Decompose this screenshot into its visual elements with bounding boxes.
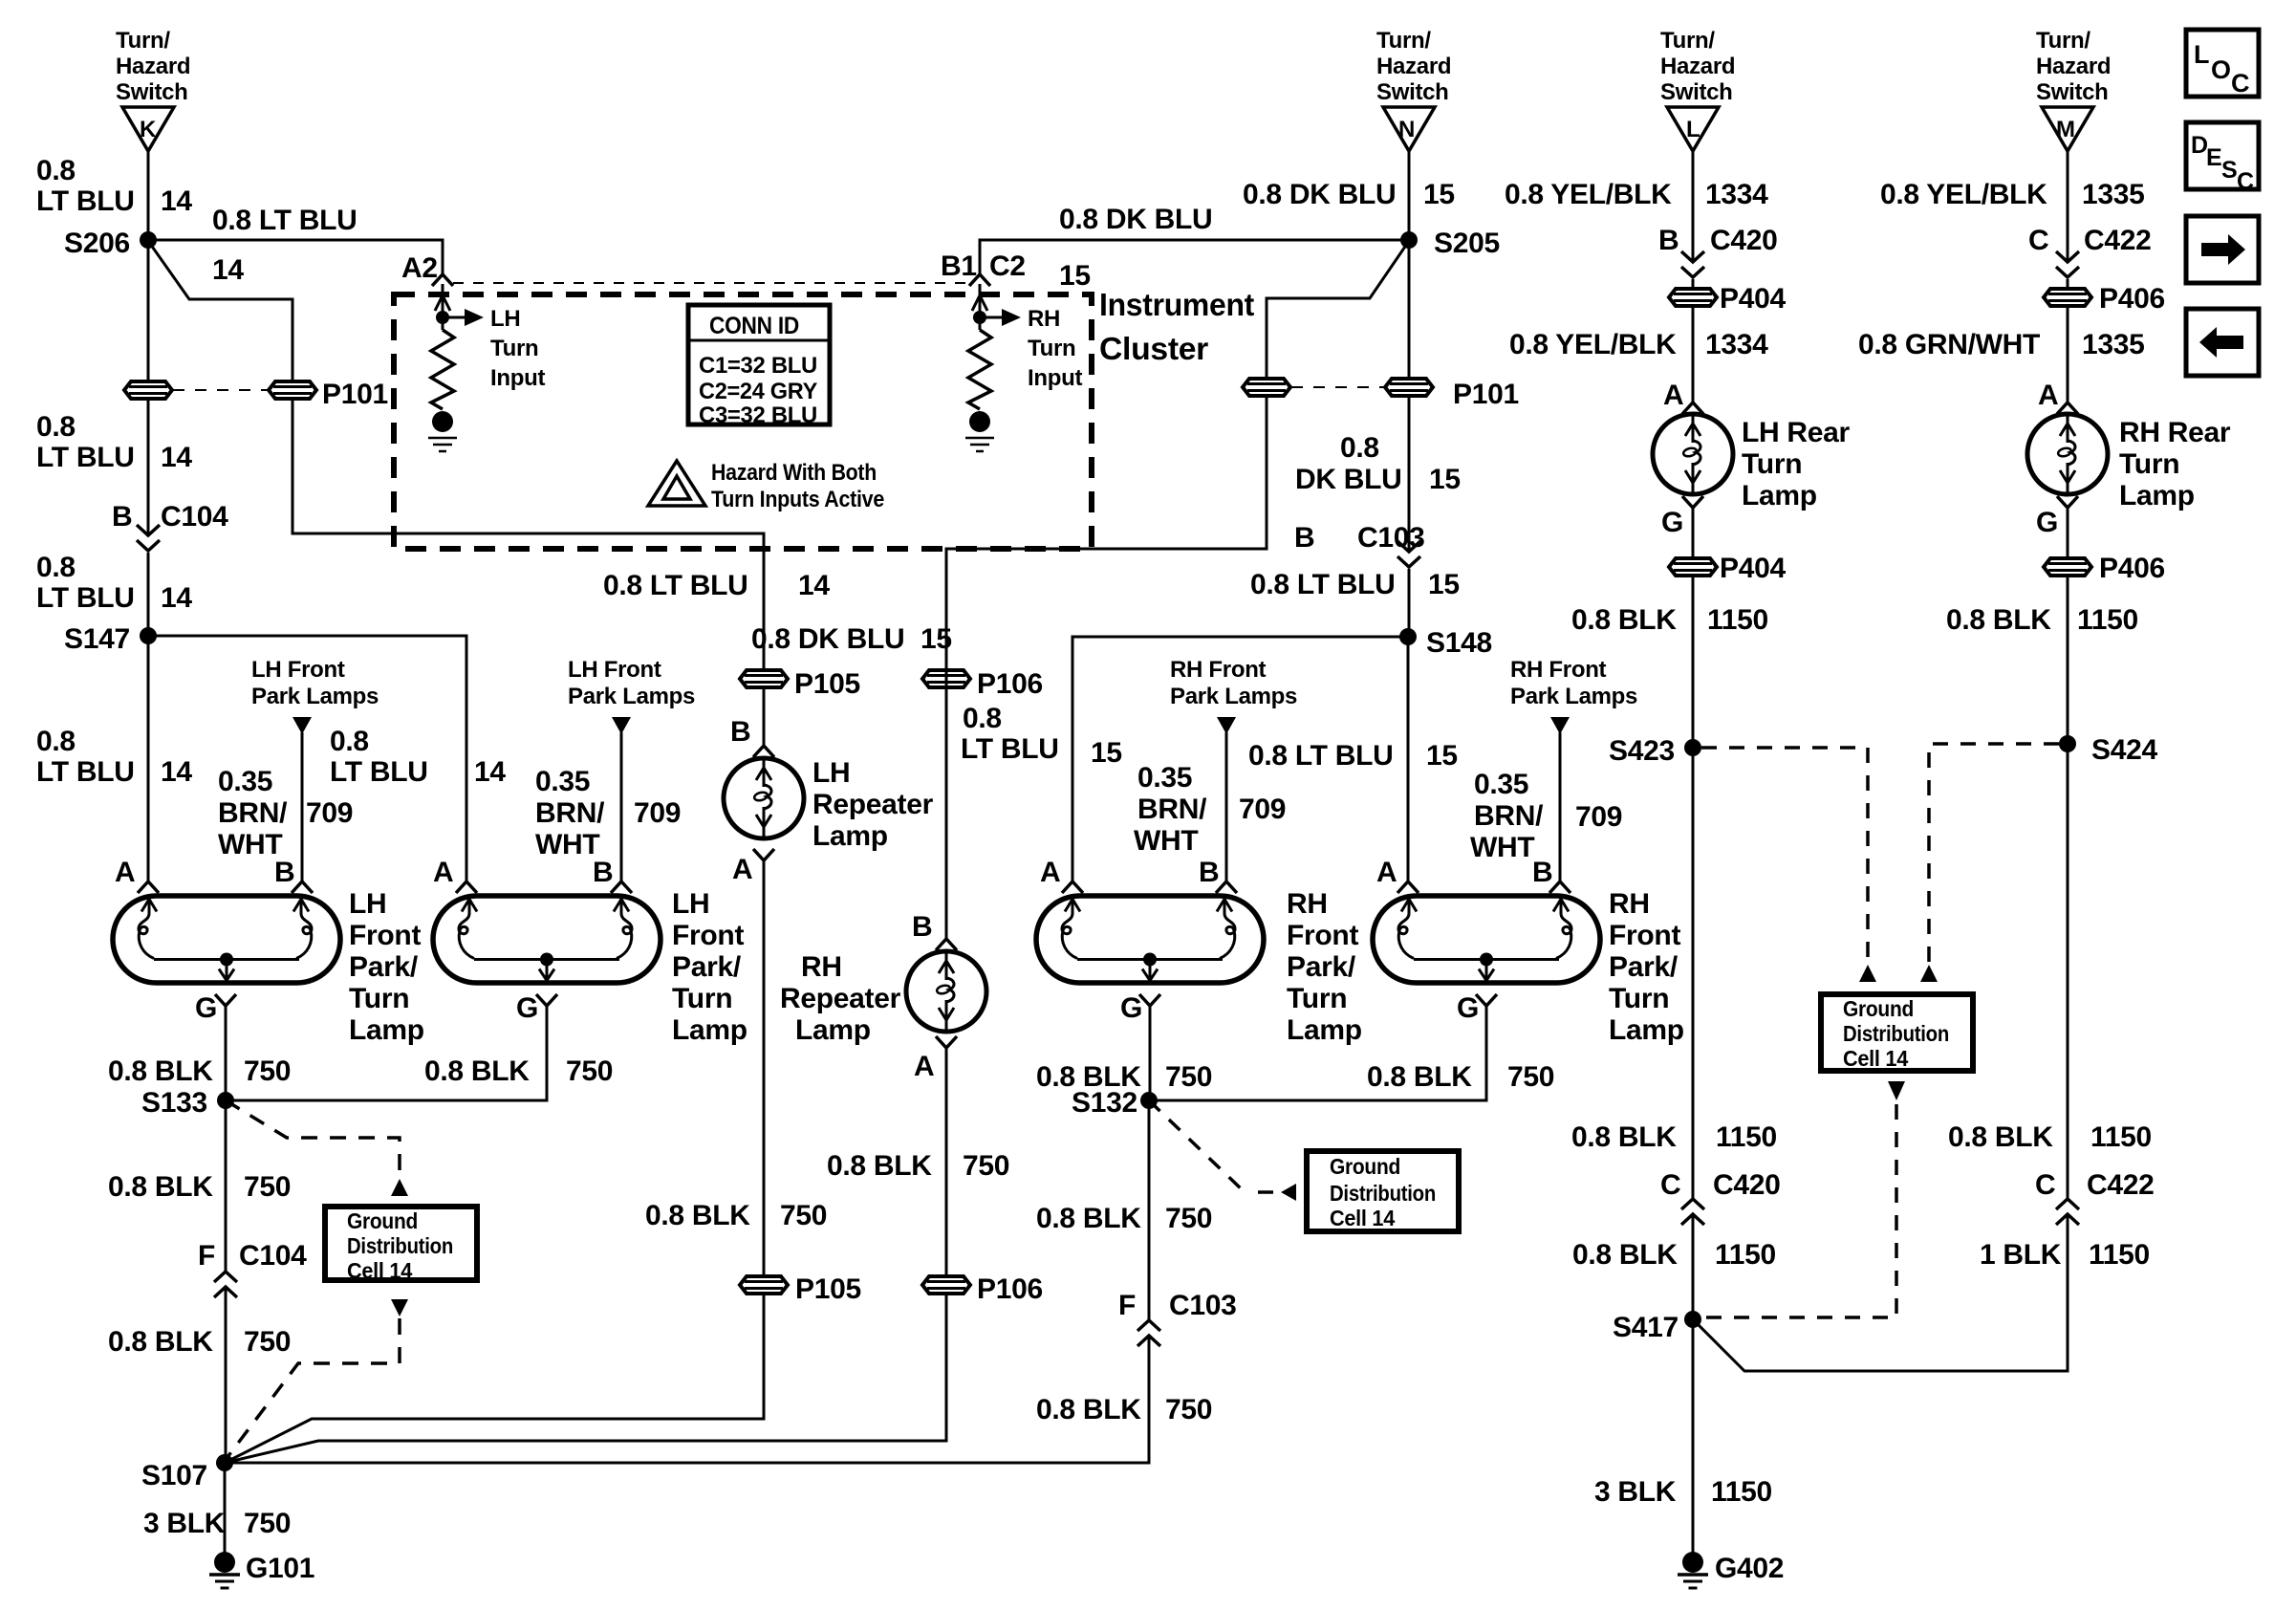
svg-text:0.8 BLK: 0.8 BLK — [1948, 1121, 2053, 1153]
svg-text:LH: LH — [349, 888, 386, 920]
svg-text:LT BLU: LT BLU — [330, 756, 428, 788]
svg-text:G: G — [195, 992, 217, 1024]
svg-text:750: 750 — [244, 1055, 291, 1087]
svg-text:WHT: WHT — [1470, 832, 1534, 863]
svg-text:15: 15 — [1429, 464, 1461, 495]
svg-text:P406: P406 — [2099, 553, 2165, 584]
pin B LH front park/turn lamp 1 — [292, 881, 313, 893]
svg-text:0.8 DK BLU: 0.8 DK BLU — [1059, 204, 1212, 235]
svg-text:0.8 BLK: 0.8 BLK — [108, 1326, 213, 1358]
lamp LH front park/turn 1 — [113, 896, 340, 983]
svg-text:Switch: Switch — [116, 79, 188, 105]
svg-text:0.8: 0.8 — [36, 552, 76, 583]
wire S206 to C104 pin B — [147, 240, 150, 535]
svg-text:750: 750 — [1165, 1203, 1212, 1234]
svg-text:Cell 14: Cell 14 — [1330, 1206, 1395, 1230]
svg-text:Front: Front — [349, 920, 421, 951]
wire park lamps feed to lamp 3 pin B — [1225, 732, 1228, 881]
arrow S423 ref into box — [1859, 965, 1876, 982]
svg-text:14: 14 — [474, 756, 506, 788]
svg-text:0.8: 0.8 — [36, 726, 76, 757]
conn id table divider — [688, 339, 830, 342]
svg-text:WHT: WHT — [1134, 825, 1198, 857]
svg-text:1334: 1334 — [1705, 179, 1768, 210]
wire C104 F to S107 — [225, 1287, 227, 1463]
pin B RH front park/turn lamp 4 — [1549, 881, 1570, 893]
svg-text:1150: 1150 — [1716, 1121, 1777, 1153]
svg-text:709: 709 — [1239, 794, 1286, 825]
svg-text:Turn Inputs Active: Turn Inputs Active — [711, 487, 884, 512]
svg-text:Lamp: Lamp — [1287, 1014, 1362, 1046]
svg-text:K: K — [140, 117, 157, 142]
svg-text:CONN ID: CONN ID — [709, 313, 799, 339]
svg-text:C422: C422 — [2084, 225, 2152, 256]
pin B LH front park/turn lamp 2 — [611, 881, 632, 893]
pin G LH front park/turn lamp 2 — [536, 994, 557, 1006]
ground RH turn input — [965, 438, 994, 451]
turn/hazard switch K — [122, 107, 174, 151]
dashed link pin A2 to pin B1 — [453, 282, 969, 284]
pin A LH front park/turn lamp 1 — [138, 881, 159, 893]
svg-text:Front: Front — [1287, 920, 1358, 951]
wire K switch to S206 — [147, 151, 150, 240]
dashed ref S424 to ground distribution — [1929, 744, 2059, 962]
svg-text:G: G — [516, 992, 538, 1024]
svg-text:B: B — [1532, 857, 1552, 888]
wire park lamps feed to lamp 4 pin B — [1559, 732, 1562, 881]
arrow LH turn input — [465, 309, 484, 326]
grommet P101 left on branch wire — [269, 381, 316, 399]
svg-text:Park/: Park/ — [1287, 951, 1356, 983]
svg-text:0.35: 0.35 — [1474, 769, 1528, 800]
svg-text:Turn: Turn — [1609, 983, 1669, 1014]
dashed link P101 left pair — [173, 389, 269, 391]
svg-text:0.8 LT BLU: 0.8 LT BLU — [1250, 569, 1395, 600]
svg-text:Park Lamps: Park Lamps — [251, 684, 379, 709]
svg-text:BRN/: BRN/ — [218, 797, 288, 829]
turn/hazard switch L — [1667, 107, 1719, 151]
svg-text:3 BLK: 3 BLK — [1594, 1476, 1677, 1508]
svg-text:LT BLU: LT BLU — [36, 442, 135, 473]
wire RH rear lamp G to C422 pin C — [2067, 508, 2069, 1199]
instrument cluster dashed box — [394, 294, 1092, 549]
svg-text:M: M — [2056, 117, 2075, 142]
svg-text:Park Lamps: Park Lamps — [1510, 684, 1637, 709]
svg-text:Park/: Park/ — [1609, 951, 1679, 983]
wire C422 C to RH rear lamp pin A — [2067, 279, 2069, 402]
wire C103 B to S148 — [1408, 569, 1411, 637]
grommet P101 right on N wire — [1385, 379, 1433, 396]
svg-text:A: A — [1040, 857, 1060, 888]
svg-text:A2: A2 — [401, 252, 438, 284]
svg-text:14: 14 — [161, 756, 192, 788]
svg-text:C420: C420 — [1713, 1169, 1781, 1201]
svg-text:G402: G402 — [1715, 1553, 1784, 1584]
svg-text:Lamp: Lamp — [349, 1014, 424, 1046]
wire S205 to instrument cluster pin B1 — [980, 240, 1409, 274]
svg-text:Lamp: Lamp — [795, 1014, 871, 1046]
grommet P406 upper — [2044, 289, 2091, 306]
svg-text:Turn/: Turn/ — [116, 28, 170, 54]
svg-text:S147: S147 — [64, 623, 130, 655]
svg-text:0.8 BLK: 0.8 BLK — [1571, 1121, 1677, 1153]
svg-text:P404: P404 — [1720, 553, 1786, 584]
svg-text:Cell 14: Cell 14 — [347, 1258, 412, 1283]
svg-text:750: 750 — [244, 1508, 291, 1539]
svg-text:Cell 14: Cell 14 — [1843, 1046, 1908, 1071]
svg-text:P101: P101 — [322, 379, 388, 410]
svg-text:Hazard With Both: Hazard With Both — [711, 460, 877, 486]
grommet P101 left on K wire — [124, 381, 172, 399]
grommet P406 lower — [2044, 558, 2091, 576]
lamp RH repeater — [906, 951, 986, 1032]
svg-text:750: 750 — [963, 1150, 1009, 1182]
ground G101 — [209, 1552, 240, 1588]
svg-text:0.8 BLK: 0.8 BLK — [108, 1171, 213, 1203]
svg-text:S: S — [2221, 157, 2237, 184]
svg-text:0.8: 0.8 — [1340, 432, 1379, 464]
svg-text:0.35: 0.35 — [1137, 762, 1192, 794]
svg-text:DK BLU: DK BLU — [1295, 464, 1402, 495]
pin B RH front park/turn lamp 3 — [1216, 881, 1237, 893]
svg-text:0.8 BLK: 0.8 BLK — [1571, 604, 1677, 636]
svg-text:0.8 BLK: 0.8 BLK — [1036, 1394, 1141, 1425]
splice S107 — [216, 1454, 233, 1471]
lamp LH rear turn — [1653, 414, 1733, 494]
svg-text:S423: S423 — [1609, 735, 1675, 767]
svg-text:LH Rear: LH Rear — [1742, 417, 1851, 448]
arrow out of ground distribution box left — [391, 1299, 408, 1316]
svg-text:Lamp: Lamp — [2119, 480, 2195, 511]
legend box DESC — [2186, 122, 2259, 189]
svg-text:709: 709 — [306, 797, 353, 829]
svg-text:P101: P101 — [1453, 379, 1519, 410]
arrow out of ground distribution box right — [1888, 1081, 1905, 1100]
svg-text:S205: S205 — [1434, 228, 1500, 259]
svg-text:C1=32 BLU: C1=32 BLU — [699, 353, 817, 379]
resistor RH turn input — [968, 330, 991, 409]
svg-text:1150: 1150 — [2090, 1121, 2152, 1153]
svg-text:S424: S424 — [2091, 734, 2157, 766]
svg-text:A: A — [2038, 380, 2058, 411]
svg-text:14: 14 — [161, 442, 192, 473]
wire RH repeater A to S107 — [225, 1048, 946, 1463]
svg-text:Park Lamps: Park Lamps — [1170, 684, 1297, 709]
svg-text:S148: S148 — [1426, 627, 1492, 659]
svg-text:G: G — [1120, 992, 1142, 1024]
splice S206 — [140, 231, 157, 249]
svg-text:Turn: Turn — [490, 336, 538, 361]
svg-text:C: C — [2237, 168, 2254, 195]
svg-text:S206: S206 — [64, 228, 130, 259]
svg-text:15: 15 — [1091, 737, 1122, 769]
marker RH front park lamps feed 4 — [1550, 717, 1570, 734]
pin B1 instrument cluster — [969, 274, 990, 286]
svg-text:C: C — [2028, 225, 2048, 256]
svg-text:L: L — [2194, 40, 2209, 69]
svg-text:0.8 BLK: 0.8 BLK — [1036, 1203, 1141, 1234]
dashed link P101 right pair — [1291, 386, 1384, 388]
svg-text:LH: LH — [812, 757, 850, 789]
wire park lamps feed to lamp 1 pin B — [301, 732, 304, 881]
svg-text:LT BLU: LT BLU — [36, 185, 135, 217]
svg-text:Hazard: Hazard — [1660, 54, 1735, 79]
pin G RH front park/turn lamp 4 — [1476, 994, 1497, 1006]
svg-text:Ground: Ground — [347, 1208, 418, 1233]
svg-text:G: G — [1457, 992, 1479, 1024]
splice S132 — [1140, 1092, 1158, 1109]
svg-text:Lamp: Lamp — [672, 1014, 747, 1046]
svg-text:Switch: Switch — [2036, 79, 2109, 105]
node RH turn input — [972, 284, 1002, 330]
svg-text:C103: C103 — [1357, 522, 1425, 554]
svg-text:Instrument: Instrument — [1099, 287, 1254, 322]
svg-text:F: F — [1118, 1290, 1136, 1321]
svg-text:0.8 YEL/BLK: 0.8 YEL/BLK — [1880, 179, 2047, 210]
wire S147 to lamp pin A — [147, 636, 150, 881]
arrow RH turn input — [1002, 309, 1021, 326]
marker RH front park lamps feed 3 — [1217, 717, 1236, 734]
hazard warning triangle — [648, 461, 705, 506]
svg-text:0.35: 0.35 — [535, 766, 590, 797]
svg-text:Turn: Turn — [349, 983, 409, 1014]
legend box LOC — [2186, 30, 2259, 97]
svg-text:F: F — [198, 1240, 215, 1272]
svg-text:WHT: WHT — [535, 829, 599, 860]
svg-text:Hazard: Hazard — [116, 54, 190, 79]
svg-text:Park/: Park/ — [672, 951, 742, 983]
wire S148 to lamp 4 pin A — [1407, 637, 1410, 881]
svg-text:B1: B1 — [941, 250, 977, 282]
svg-text:P105: P105 — [795, 1273, 861, 1305]
pin A RH front park/turn lamp 4 — [1397, 881, 1419, 893]
svg-text:RH: RH — [801, 951, 842, 983]
svg-text:750: 750 — [1165, 1061, 1212, 1093]
svg-text:0.8: 0.8 — [36, 155, 76, 186]
svg-text:1334: 1334 — [1705, 329, 1768, 360]
svg-text:S132: S132 — [1072, 1087, 1137, 1119]
svg-text:1150: 1150 — [2077, 604, 2138, 636]
svg-text:0.8 YEL/BLK: 0.8 YEL/BLK — [1509, 329, 1677, 360]
ground distribution dashed ref to S107 — [225, 1318, 400, 1461]
connector C103 pin B — [1397, 541, 1420, 567]
svg-text:C2: C2 — [989, 250, 1026, 282]
pin A RH front park/turn lamp 3 — [1062, 881, 1083, 893]
svg-text:Input: Input — [490, 365, 545, 391]
svg-text:G: G — [2036, 507, 2058, 538]
wire S148 to lamp 3 pin A — [1072, 637, 1408, 881]
svg-text:Front: Front — [672, 920, 744, 951]
grommet P105 upper — [740, 670, 788, 687]
svg-text:Switch: Switch — [1660, 79, 1733, 105]
wire S417 to G402 — [1692, 1319, 1695, 1554]
svg-text:P105: P105 — [794, 668, 860, 700]
wire lamp3 G to S132 — [1149, 1006, 1152, 1100]
svg-text:Hazard: Hazard — [2036, 54, 2111, 79]
ball terminal RH turn input — [969, 411, 990, 432]
connector C104 pin B — [137, 525, 160, 551]
wire S147 to lamp 2 pin A — [148, 636, 466, 881]
svg-text:Turn/: Turn/ — [1376, 28, 1431, 54]
svg-text:0.8: 0.8 — [36, 411, 76, 443]
svg-text:Turn: Turn — [1287, 983, 1347, 1014]
wire lamp1 G to S133 — [225, 1006, 227, 1100]
svg-text:LH: LH — [672, 888, 709, 920]
ground distribution dashed ref from S132 — [1149, 1100, 1277, 1192]
junction dot LH turn input — [436, 311, 449, 324]
svg-text:P404: P404 — [1720, 283, 1786, 315]
svg-text:Hazard: Hazard — [1376, 54, 1451, 79]
arrow into ground distribution box center — [1281, 1184, 1296, 1201]
ball terminal LH turn input — [432, 411, 453, 432]
svg-text:Turn: Turn — [1028, 336, 1075, 361]
svg-text:Repeater: Repeater — [812, 789, 934, 820]
svg-text:Turn: Turn — [1742, 448, 1802, 480]
svg-text:C420: C420 — [1710, 225, 1778, 256]
svg-text:0.8: 0.8 — [963, 703, 1002, 734]
splice S147 — [140, 627, 157, 644]
connector C103 pin F — [1137, 1320, 1160, 1346]
svg-text:LH: LH — [490, 306, 520, 332]
wire N switch to S205 — [1408, 151, 1411, 240]
svg-text:15: 15 — [1426, 740, 1458, 772]
svg-text:G101: G101 — [246, 1553, 314, 1584]
svg-text:LT BLU: LT BLU — [36, 582, 135, 614]
svg-text:0.8 YEL/BLK: 0.8 YEL/BLK — [1505, 179, 1672, 210]
svg-text:B: B — [1294, 522, 1314, 554]
svg-text:RH: RH — [1287, 888, 1328, 920]
dashed ref ground distribution to S417 — [1703, 1104, 1896, 1317]
svg-text:B: B — [593, 857, 613, 888]
svg-text:Park/: Park/ — [349, 951, 419, 983]
wire lamp2 G to S133 — [226, 1006, 547, 1100]
svg-text:C103: C103 — [1169, 1290, 1237, 1321]
svg-text:A: A — [914, 1051, 934, 1082]
conn id table box — [688, 305, 830, 424]
pin G LH front park/turn lamp 1 — [215, 994, 236, 1006]
wire C104 B to S147 — [147, 553, 150, 636]
svg-text:1 BLK: 1 BLK — [1980, 1239, 2062, 1271]
svg-text:LH Front: LH Front — [568, 657, 661, 683]
lamp LH front park/turn 2 — [433, 896, 661, 983]
svg-text:B: B — [912, 911, 932, 943]
svg-text:B: B — [1199, 857, 1219, 888]
splice S424 — [2059, 735, 2076, 752]
svg-text:3 BLK: 3 BLK — [143, 1508, 226, 1539]
pin A2 instrument cluster — [432, 274, 453, 286]
svg-text:0.8 BLK: 0.8 BLK — [1572, 1239, 1678, 1271]
svg-text:15: 15 — [1423, 179, 1455, 210]
legend box next arrow — [2186, 216, 2259, 283]
ground distribution cell box right — [1821, 994, 1973, 1071]
svg-text:C: C — [1660, 1169, 1680, 1201]
grommet P404 upper — [1669, 289, 1717, 306]
svg-text:S133: S133 — [141, 1087, 207, 1119]
svg-text:0.8 BLK: 0.8 BLK — [108, 1055, 213, 1087]
marker LH front park lamps feed 2 — [612, 717, 631, 734]
wire C420 C to S417 — [1692, 1214, 1695, 1319]
wire LH rear lamp G to C420 pin C — [1692, 508, 1695, 1199]
svg-text:C2=24 GRY: C2=24 GRY — [699, 379, 817, 404]
svg-text:L: L — [1686, 117, 1700, 142]
wire S205 to C103 pin B — [1408, 240, 1411, 552]
legend box prev arrow — [2186, 309, 2259, 376]
grommet P101 right on branch wire — [1243, 379, 1290, 396]
wire M switch to C422 pin C — [2067, 151, 2069, 262]
svg-text:Cluster: Cluster — [1099, 331, 1208, 366]
svg-text:O: O — [2211, 55, 2231, 84]
svg-text:709: 709 — [634, 797, 681, 829]
pin A RH repeater lamp — [936, 1036, 957, 1048]
svg-text:Distribution: Distribution — [1330, 1181, 1436, 1206]
svg-text:15: 15 — [1059, 260, 1091, 292]
svg-text:Turn: Turn — [2119, 448, 2179, 480]
wire S107 to G101 — [224, 1463, 227, 1554]
svg-text:B: B — [1658, 225, 1679, 256]
wire park lamps feed to lamp 2 pin B — [620, 732, 623, 881]
svg-text:750: 750 — [1507, 1061, 1554, 1093]
svg-text:S107: S107 — [141, 1460, 207, 1491]
svg-text:Turn/: Turn/ — [2036, 28, 2090, 54]
svg-text:RH Rear: RH Rear — [2119, 417, 2231, 448]
svg-text:P406: P406 — [2099, 283, 2165, 315]
connector C420 pin C — [1681, 1199, 1704, 1225]
grommet P404 lower — [1669, 558, 1717, 576]
lamp LH repeater — [724, 758, 804, 838]
grommet P106 upper — [922, 670, 970, 687]
svg-text:Turn: Turn — [672, 983, 732, 1014]
svg-text:0.8 DK BLU: 0.8 DK BLU — [751, 623, 904, 655]
svg-text:15: 15 — [1428, 569, 1460, 600]
resistor LH turn input — [431, 330, 454, 409]
svg-text:C104: C104 — [239, 1240, 307, 1272]
pin A LH front park/turn lamp 2 — [456, 881, 477, 893]
pin A LH rear turn lamp — [1682, 402, 1703, 414]
svg-text:A: A — [1663, 380, 1683, 411]
svg-text:Lamp: Lamp — [1609, 1014, 1684, 1046]
arrow S424 ref into box — [1920, 965, 1938, 982]
ground distribution dashed ref from S133 — [226, 1100, 400, 1177]
pin B LH repeater lamp — [753, 746, 774, 757]
svg-text:A: A — [1376, 857, 1397, 888]
svg-text:C3=32 BLU: C3=32 BLU — [699, 402, 817, 428]
svg-text:Park Lamps: Park Lamps — [568, 684, 695, 709]
svg-text:P106: P106 — [977, 668, 1043, 700]
svg-text:C: C — [2035, 1169, 2055, 1201]
svg-text:N: N — [1398, 117, 1415, 142]
svg-text:1150: 1150 — [1711, 1476, 1772, 1508]
svg-text:LH Front: LH Front — [251, 657, 345, 683]
wire C103 F to S107 — [225, 1336, 1149, 1463]
turn/hazard switch M — [2042, 107, 2093, 151]
pin G LH rear turn lamp — [1682, 496, 1703, 508]
svg-text:A: A — [433, 857, 453, 888]
svg-text:C422: C422 — [2087, 1169, 2155, 1201]
ground distribution cell box center — [1307, 1151, 1459, 1231]
svg-text:1150: 1150 — [1715, 1239, 1776, 1271]
node LH turn input — [435, 284, 465, 330]
lamp RH front park/turn 4 — [1373, 896, 1600, 983]
connector C420 pin B — [1681, 251, 1704, 277]
svg-text:Front: Front — [1609, 920, 1680, 951]
svg-text:1335: 1335 — [2082, 179, 2145, 210]
svg-text:709: 709 — [1575, 801, 1622, 833]
svg-text:0.35: 0.35 — [218, 766, 272, 797]
svg-text:750: 750 — [1165, 1394, 1212, 1425]
svg-text:14: 14 — [161, 185, 192, 217]
svg-text:15: 15 — [921, 623, 952, 655]
svg-text:RH Front: RH Front — [1170, 657, 1267, 683]
